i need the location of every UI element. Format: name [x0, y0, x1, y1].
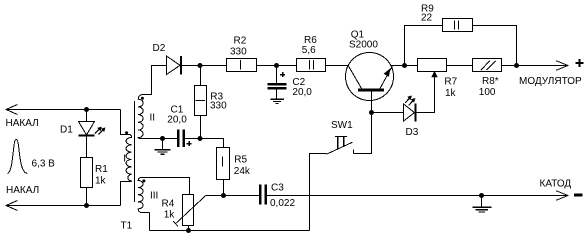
svg-text:SW1: SW1: [331, 120, 353, 131]
svg-text:100: 100: [479, 87, 496, 98]
wire: junction to D1: [86, 110, 88, 122]
svg-text:R8*: R8*: [482, 76, 499, 87]
resistor R7 1k (variable): [418, 59, 447, 72]
svg-text:1k: 1k: [95, 176, 107, 187]
svg-text:R5: R5: [234, 155, 247, 166]
wire: R5 to cathode line: [223, 180, 225, 196]
wire: C3 to cathode arrow: [267, 195, 567, 197]
node: heater / D1 junction: [84, 107, 89, 112]
svg-text:6,3 В: 6,3 В: [32, 159, 56, 170]
capacitor C3 0.022: [260, 185, 266, 205]
T1 winding III: [138, 178, 149, 213]
variable resistor R4 1k: [173, 195, 206, 227]
arrow: modulator output (points right): [556, 61, 568, 71]
node: cathode ground: [479, 193, 484, 198]
wire: T1 primary bottom to heater: [121, 182, 130, 206]
svg-text:1k: 1k: [445, 88, 457, 99]
capacitor C1 20.0 (electrolytic): [178, 130, 191, 148]
wire: winding II top to D2: [143, 66, 167, 95]
svg-text:НАКАЛ: НАКАЛ: [6, 185, 39, 196]
wire: winding III bottom to rail: [149, 213, 151, 231]
wiper arrow of R7: [431, 71, 437, 78]
waveform symbol (6.3V pulse): [8, 139, 28, 173]
wire: riser to SW1: [310, 154, 327, 231]
node: R2 / C2 / R6: [274, 63, 279, 68]
label + (plus): [576, 59, 584, 67]
svg-text:C3: C3: [271, 183, 284, 194]
diode D2: [167, 56, 182, 75]
node: R4 / bottom rail: [186, 228, 191, 233]
svg-text:II: II: [150, 112, 156, 123]
wire: C1 to node: [185, 138, 201, 140]
resistor R9 22: [443, 19, 473, 32]
svg-text:T1: T1: [121, 220, 133, 231]
wire: R4 bottom to rail: [188, 226, 190, 231]
svg-text:330: 330: [230, 46, 247, 57]
switch SW1 (push button): [327, 137, 354, 155]
transistor Q1 S2000: [346, 53, 394, 113]
svg-text:I: I: [123, 154, 126, 165]
wire: R1 to bottom heater line: [86, 188, 88, 206]
svg-text:24k: 24k: [234, 166, 251, 177]
node: emitter / R9 / R7: [402, 63, 407, 68]
svg-text:D3: D3: [406, 127, 419, 138]
resistor R6 5.6: [297, 59, 326, 72]
wire: R6 to Q1: [326, 65, 349, 67]
wire: R9 to output node: [473, 26, 517, 66]
svg-text:20,0: 20,0: [167, 115, 187, 126]
wire: R8 to modulator arrow: [502, 65, 567, 67]
svg-text:D2: D2: [153, 43, 166, 54]
ground (C2): [271, 99, 284, 103]
ground (cathode): [472, 196, 491, 213]
resistor R2 330: [227, 59, 257, 72]
node: R5 / R4 wiper / C3: [221, 193, 226, 198]
svg-text:R7: R7: [444, 76, 457, 87]
resistor R5 24k: [217, 148, 230, 180]
wire: R7 to R8: [447, 65, 473, 67]
svg-text:S2000: S2000: [349, 40, 378, 51]
wire: Q1 emitter to node: [391, 65, 418, 67]
wire: R4 wiper to C3: [206, 195, 259, 197]
T1 winding I (primary): [126, 135, 132, 182]
arrow: heater top output (points left): [6, 105, 18, 115]
svg-text:R4: R4: [162, 199, 175, 210]
polarity dot winding III: [142, 179, 145, 182]
wire: winding II bottom to C1: [141, 138, 178, 140]
arrow: cathode output (points right): [556, 191, 568, 201]
svg-text:0,022: 0,022: [270, 198, 295, 209]
resistor R8* 100: [473, 59, 502, 72]
wire: D3 to R7 wiper: [416, 77, 435, 113]
svg-text:КАТОД: КАТОД: [540, 178, 572, 189]
wire: R3 to C1 node: [200, 116, 202, 139]
svg-text:R1: R1: [95, 164, 108, 175]
transformer T1 core: [134, 101, 136, 202]
svg-text:1k: 1k: [164, 210, 176, 221]
T1 winding II: [138, 95, 143, 139]
wire: D2 to R2: [181, 65, 227, 67]
wire: node to R3: [200, 66, 202, 86]
resistor R3 330: [195, 86, 207, 116]
resistor R1 1k: [81, 158, 93, 188]
svg-text:20,0: 20,0: [292, 87, 312, 98]
node: ground tap: [160, 136, 165, 141]
svg-text:D1: D1: [60, 125, 73, 136]
svg-text:22: 22: [421, 13, 433, 24]
wire: bottom heater line: [6, 205, 121, 207]
wire: winding III top to R4: [142, 178, 190, 195]
node: Q1 base / D3 / SW1: [369, 110, 374, 115]
node: R9 right / output: [514, 63, 519, 68]
wire: node to R5: [201, 139, 224, 148]
wire: heater to T1 primary top: [121, 110, 130, 135]
label - (minus): [574, 194, 583, 197]
wire: R2 to R6: [257, 65, 297, 67]
wire: base node to D3: [372, 112, 404, 114]
wire: SW1 to base node: [354, 113, 372, 154]
wire: top heater line: [6, 109, 121, 111]
wire: D1 to R1: [86, 136, 88, 158]
node: R1 / bottom heater junction: [84, 203, 89, 208]
wire: node up to R9: [405, 26, 443, 66]
polarity dot winding I: [125, 131, 128, 134]
node: D2 / R3 / R2: [198, 63, 203, 68]
polarity dot winding II: [141, 97, 144, 100]
wire: bottom rail: [150, 230, 310, 232]
node: C1 / R3 / R5: [198, 136, 203, 141]
capacitor C2 20.0 (electrolytic): [268, 66, 287, 99]
svg-text:МОДУЛЯТОР: МОДУЛЯТОР: [519, 76, 582, 87]
ground (winding II return): [155, 139, 171, 155]
arrow: heater bottom output (points left): [6, 201, 18, 211]
svg-text:НАКАЛ: НАКАЛ: [6, 118, 39, 129]
svg-text:330: 330: [210, 101, 227, 112]
svg-text:5,6: 5,6: [302, 45, 316, 56]
LED D3: [404, 96, 416, 122]
svg-text:III: III: [150, 190, 158, 201]
LED D1: [79, 122, 106, 136]
svg-text:R2: R2: [234, 35, 247, 46]
